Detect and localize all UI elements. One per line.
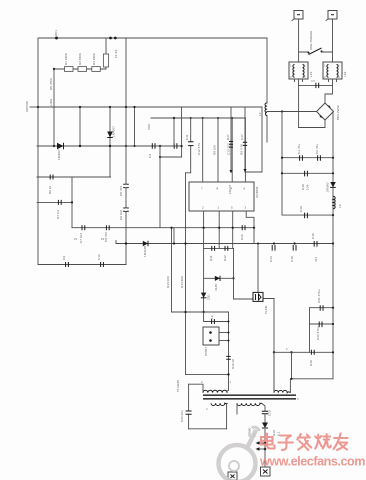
wire y157 jog [160,156,182,158]
capacitor C21 [320,305,323,311]
svg-text:VCC: VCC [147,123,151,130]
svg-text:C16: C16 [311,233,315,239]
svg-text:C22 470u: C22 470u [316,326,320,340]
wire IC pin8 drop [217,118,219,182]
svg-text:RV1: RV1 [54,30,58,36]
resistor R17 clamp [230,107,232,170]
capacitor C10 series [101,262,104,267]
watermark text [261,434,348,451]
wire IC pin1 down [218,211,220,248]
wire out cap row1 [310,307,334,309]
transformer T1 top winding [274,390,290,392]
connector J1 [294,11,303,20]
resistor R2 [78,67,87,72]
wire vertical x185.5 long [185,173,187,375]
capacitor C17 clamp [244,107,246,169]
wire vertical x80 [79,107,81,146]
junction [109,145,111,147]
capacitor CX1 [316,83,319,88]
wire gnd return y352.3 [274,351,333,353]
wire bulk rail x267 with inductor L2 [266,38,268,142]
svg-text:C23: C23 [268,410,272,416]
junction [125,242,127,244]
svg-text:LF2: LF2 [343,71,347,77]
transformer T1 primary [203,390,227,392]
wire vertical x174 lower [173,228,175,244]
wire IC pin5 down [232,211,234,248]
capacitor C16 on W2 [314,241,317,247]
wire IC pin7 drop [202,118,204,182]
svg-text:C5 473: C5 473 [119,186,123,196]
svg-text:www.elecfans.com: www.elecfans.com [259,455,365,469]
wire vertical x274 [273,299,275,393]
wire vertical x233.5 [233,248,235,299]
svg-text:P1: P1 [74,237,78,241]
capacitor C22 [319,322,322,328]
wire primary left leg [189,384,203,392]
svg-text:C12 473: C12 473 [197,143,201,155]
svg-text:C7 104: C7 104 [79,233,83,243]
wire B2 y248.4 [204,247,234,249]
wire vertical x160 [159,146,161,228]
fuse F1 [109,37,112,40]
svg-text:C6 102: C6 102 [119,210,123,220]
resistor R7 series [58,200,61,205]
capacitor C2 bulk [318,155,321,161]
wire opto out top [219,332,229,334]
svg-text:1N4007: 1N4007 [112,126,116,137]
junction [159,145,161,147]
junction [37,106,39,108]
wire aux top legs [274,352,333,392]
svg-text:LF1: LF1 [309,71,313,77]
svg-text:C13 102: C13 102 [227,143,231,155]
resistor R16 on x228.5 [226,356,231,359]
wire vertical x258 from W2 [257,244,259,293]
switch SW1 [299,51,333,53]
diode D2 [107,132,113,138]
wire IC pin drop x245 [244,118,246,182]
wire left rail [37,38,39,265]
svg-text:R16 1K: R16 1K [231,358,235,369]
wire y278.3 [204,277,234,279]
wire feedback y312 [172,311,229,313]
choke pin stubs [295,79,337,82]
svg-text:C9: C9 [62,256,66,260]
svg-text:C18: C18 [301,184,305,190]
svg-text:C15: C15 [290,256,294,262]
svg-text:T1 EE25: T1 EE25 [176,380,180,392]
diode D5 [215,276,220,281]
capacitor C8 series on B1 [106,225,109,230]
wire startup row [54,68,106,70]
resistor R4 vertical [105,38,107,69]
svg-text:471: 471 [314,257,318,262]
junction [79,145,81,147]
wire W2 y243.5 [116,243,333,245]
transformer LF1 choke [289,62,308,79]
transformer T1 core [203,394,296,396]
resistor R11 series [212,246,215,251]
capacitor C23 output [262,411,268,414]
wire IC pin3 jog [246,211,254,244]
svg-text:R9 4.7K: R9 4.7K [240,143,244,155]
capacitor C14 hanging on W2 [272,245,275,251]
varistor RV1 [55,37,58,40]
resistor R3 [92,67,101,72]
svg-text:R5 470K: R5 470K [49,77,53,90]
svg-text:P2: P2 [101,237,105,241]
wire IC pin2 down [203,211,205,248]
wire y177 [37,176,111,178]
diode D6 on rail [330,182,336,187]
wire cap row Ha [282,157,333,159]
svg-text:4148: 4148 [214,284,218,291]
svg-text:C8 472: C8 472 [104,232,108,242]
capacitor C6 on x126 [123,208,129,211]
svg-text:220VAC: 220VAC [25,100,29,112]
wire cap row Hc [282,214,333,216]
inductor L3 on rail [333,196,335,208]
svg-text:UC3842: UC3842 [255,186,259,198]
wire y202 [37,201,72,203]
svg-text:PC817: PC817 [204,346,208,356]
svg-text:C19: C19 [299,206,303,212]
svg-text:R14 20K: R14 20K [180,275,184,288]
svg-text:C10: C10 [97,254,101,260]
svg-text:1N4007: 1N4007 [57,149,61,160]
capacitor C19 [305,213,308,219]
resistor R1 [65,67,74,72]
node VOUT- arrow [264,448,267,451]
wire vertical x72 [71,177,73,228]
svg-text:R8 10K: R8 10K [213,144,217,155]
resistor R13 vertical x171.5 [171,228,173,312]
capacitor C9 series [66,262,69,267]
op-amp U1 PWM controller box [189,182,254,211]
capacitor C7 series on B1 [82,225,85,230]
svg-text:1/2W: 1/2W [49,99,53,106]
wire Vcc bus y118 [151,117,245,119]
diode D7 output [262,423,268,429]
svg-text:C17: C17 [240,134,244,140]
svg-text:SW1 POWER: SW1 POWER [309,30,313,50]
transformer T1 aux winding [211,403,228,405]
wire top rail [39,37,267,39]
resistor R12 series [225,246,228,251]
svg-text:R3 150K: R3 150K [92,52,96,65]
resistor R15 opto series [204,312,229,322]
connector J2 [328,11,337,20]
svg-text:1N4148: 1N4148 [143,246,147,257]
diode D4 on W2 [143,241,148,246]
svg-text:C3: C3 [148,154,152,158]
wire bridge left leg [298,85,300,127]
connector J3 [261,467,271,476]
svg-text:R6 10: R6 10 [48,185,52,194]
wire output rail x333 [332,112,334,379]
capacitor C18 [305,171,308,177]
wire vertical x174 upper [173,118,175,146]
wire snubber rail y107 [38,106,262,108]
transformer LF2 choke [323,62,342,79]
wire vertical x228.5 [228,312,230,391]
regulator U3 TL431 [253,292,263,301]
junction [53,145,55,147]
wire DC bus y111.5 [267,111,317,113]
capacitor C5 on x126 [123,184,129,187]
wire AC L drop [298,19,300,62]
svg-text:BD1 2W10: BD1 2W10 [336,105,340,120]
connector J4 [228,472,237,480]
svg-text:R7 2.2: R7 2.2 [56,210,60,219]
capacitor C1 bulk [300,155,303,161]
capacitor C3 series marks [152,143,155,149]
wire vertical x282 [281,112,283,216]
node VOUT+ arrow [264,442,267,445]
svg-text:104: 104 [306,185,310,190]
resistor R10 series on B1 [242,225,245,230]
wire bus B1 y227.7 [72,227,254,229]
capacitor C11 leg [186,118,191,173]
svg-text:SR360: SR360 [326,182,330,192]
svg-text:CX: CX [311,79,315,83]
svg-text:R17: R17 [226,134,230,140]
zener ZD1 [201,293,207,298]
wire bridge bottom [299,120,325,128]
wire output column x264 [262,404,265,467]
svg-text:C14: C14 [269,256,273,262]
svg-text:R1 150K: R1 150K [64,52,68,65]
svg-text:R10: R10 [240,234,244,240]
wire bridge top jog [325,85,333,103]
wire vertical x181.6 [181,107,183,157]
wire bottom left y264 [38,264,126,266]
resistor R18 series [311,350,314,355]
watermark logo [219,427,260,480]
svg-text:C20 22u: C20 22u [180,410,184,422]
svg-text:TL431: TL431 [264,305,268,314]
wire vertical x110 with diode D2 [109,107,111,177]
wire out cap row2 [310,323,334,325]
wire snubber bottom [245,171,262,173]
svg-text:L3: L3 [338,204,342,208]
diode D3 [57,143,64,149]
svg-text:C2 47u: C2 47u [315,144,319,154]
capacitor C4 series marks [174,143,177,149]
wire vertical x126 long [125,38,127,265]
junction dots right col [332,157,334,159]
svg-text:C21 470u: C21 470u [317,289,321,303]
wire primary right leg [226,391,228,393]
svg-text:R19: R19 [272,430,276,436]
svg-text:L2: L2 [258,112,262,116]
wire vertical x134.5 [134,107,136,146]
wire AC N drop [332,19,334,62]
capacitor C15 hanging on W2 [293,245,296,251]
node AC line stub [30,106,38,108]
resistor R6 series [50,175,53,180]
svg-text:R18: R18 [309,360,313,366]
svg-text:C1 47u: C1 47u [297,144,301,154]
transformer T1 secondary [237,403,262,405]
wire clamp return y374.4 [186,373,229,375]
wire vertical x54 [53,69,55,146]
svg-text:R11: R11 [209,255,213,261]
svg-text:R2 150K: R2 150K [78,52,82,65]
wire aux bottom [189,428,227,430]
wire IC pin drop x232 [231,118,233,182]
rectifier BD1 [317,103,334,120]
wire secondary stub [236,404,238,414]
junction [125,145,127,147]
wire cap row Hb [282,172,333,174]
capacitor C20 aux leg [188,384,190,429]
junction [79,106,81,108]
svg-text:C11: C11 [185,134,189,140]
svg-text:ZD1: ZD1 [207,294,211,300]
optocoupler U2 [203,327,219,345]
wire TL431 branch [234,298,275,301]
wire opto out bottom [219,340,229,342]
wire IC pin2 col to feedback [203,248,205,312]
wire X-cap row [299,84,333,86]
wire aux mid vertical [291,352,293,379]
svg-text:F1 2A: F1 2A [114,49,118,58]
wire out caps left leg [309,308,311,353]
junction [125,106,127,108]
junction [53,68,55,70]
svg-text:R13 10K: R13 10K [166,275,170,288]
svg-text:FR107: FR107 [228,184,232,194]
wire snubber right edge [261,107,263,172]
wire choke outs [299,79,333,85]
svg-text:R12: R12 [223,255,227,261]
inductor L2 [265,103,267,116]
wire W1 y146 [37,145,182,147]
